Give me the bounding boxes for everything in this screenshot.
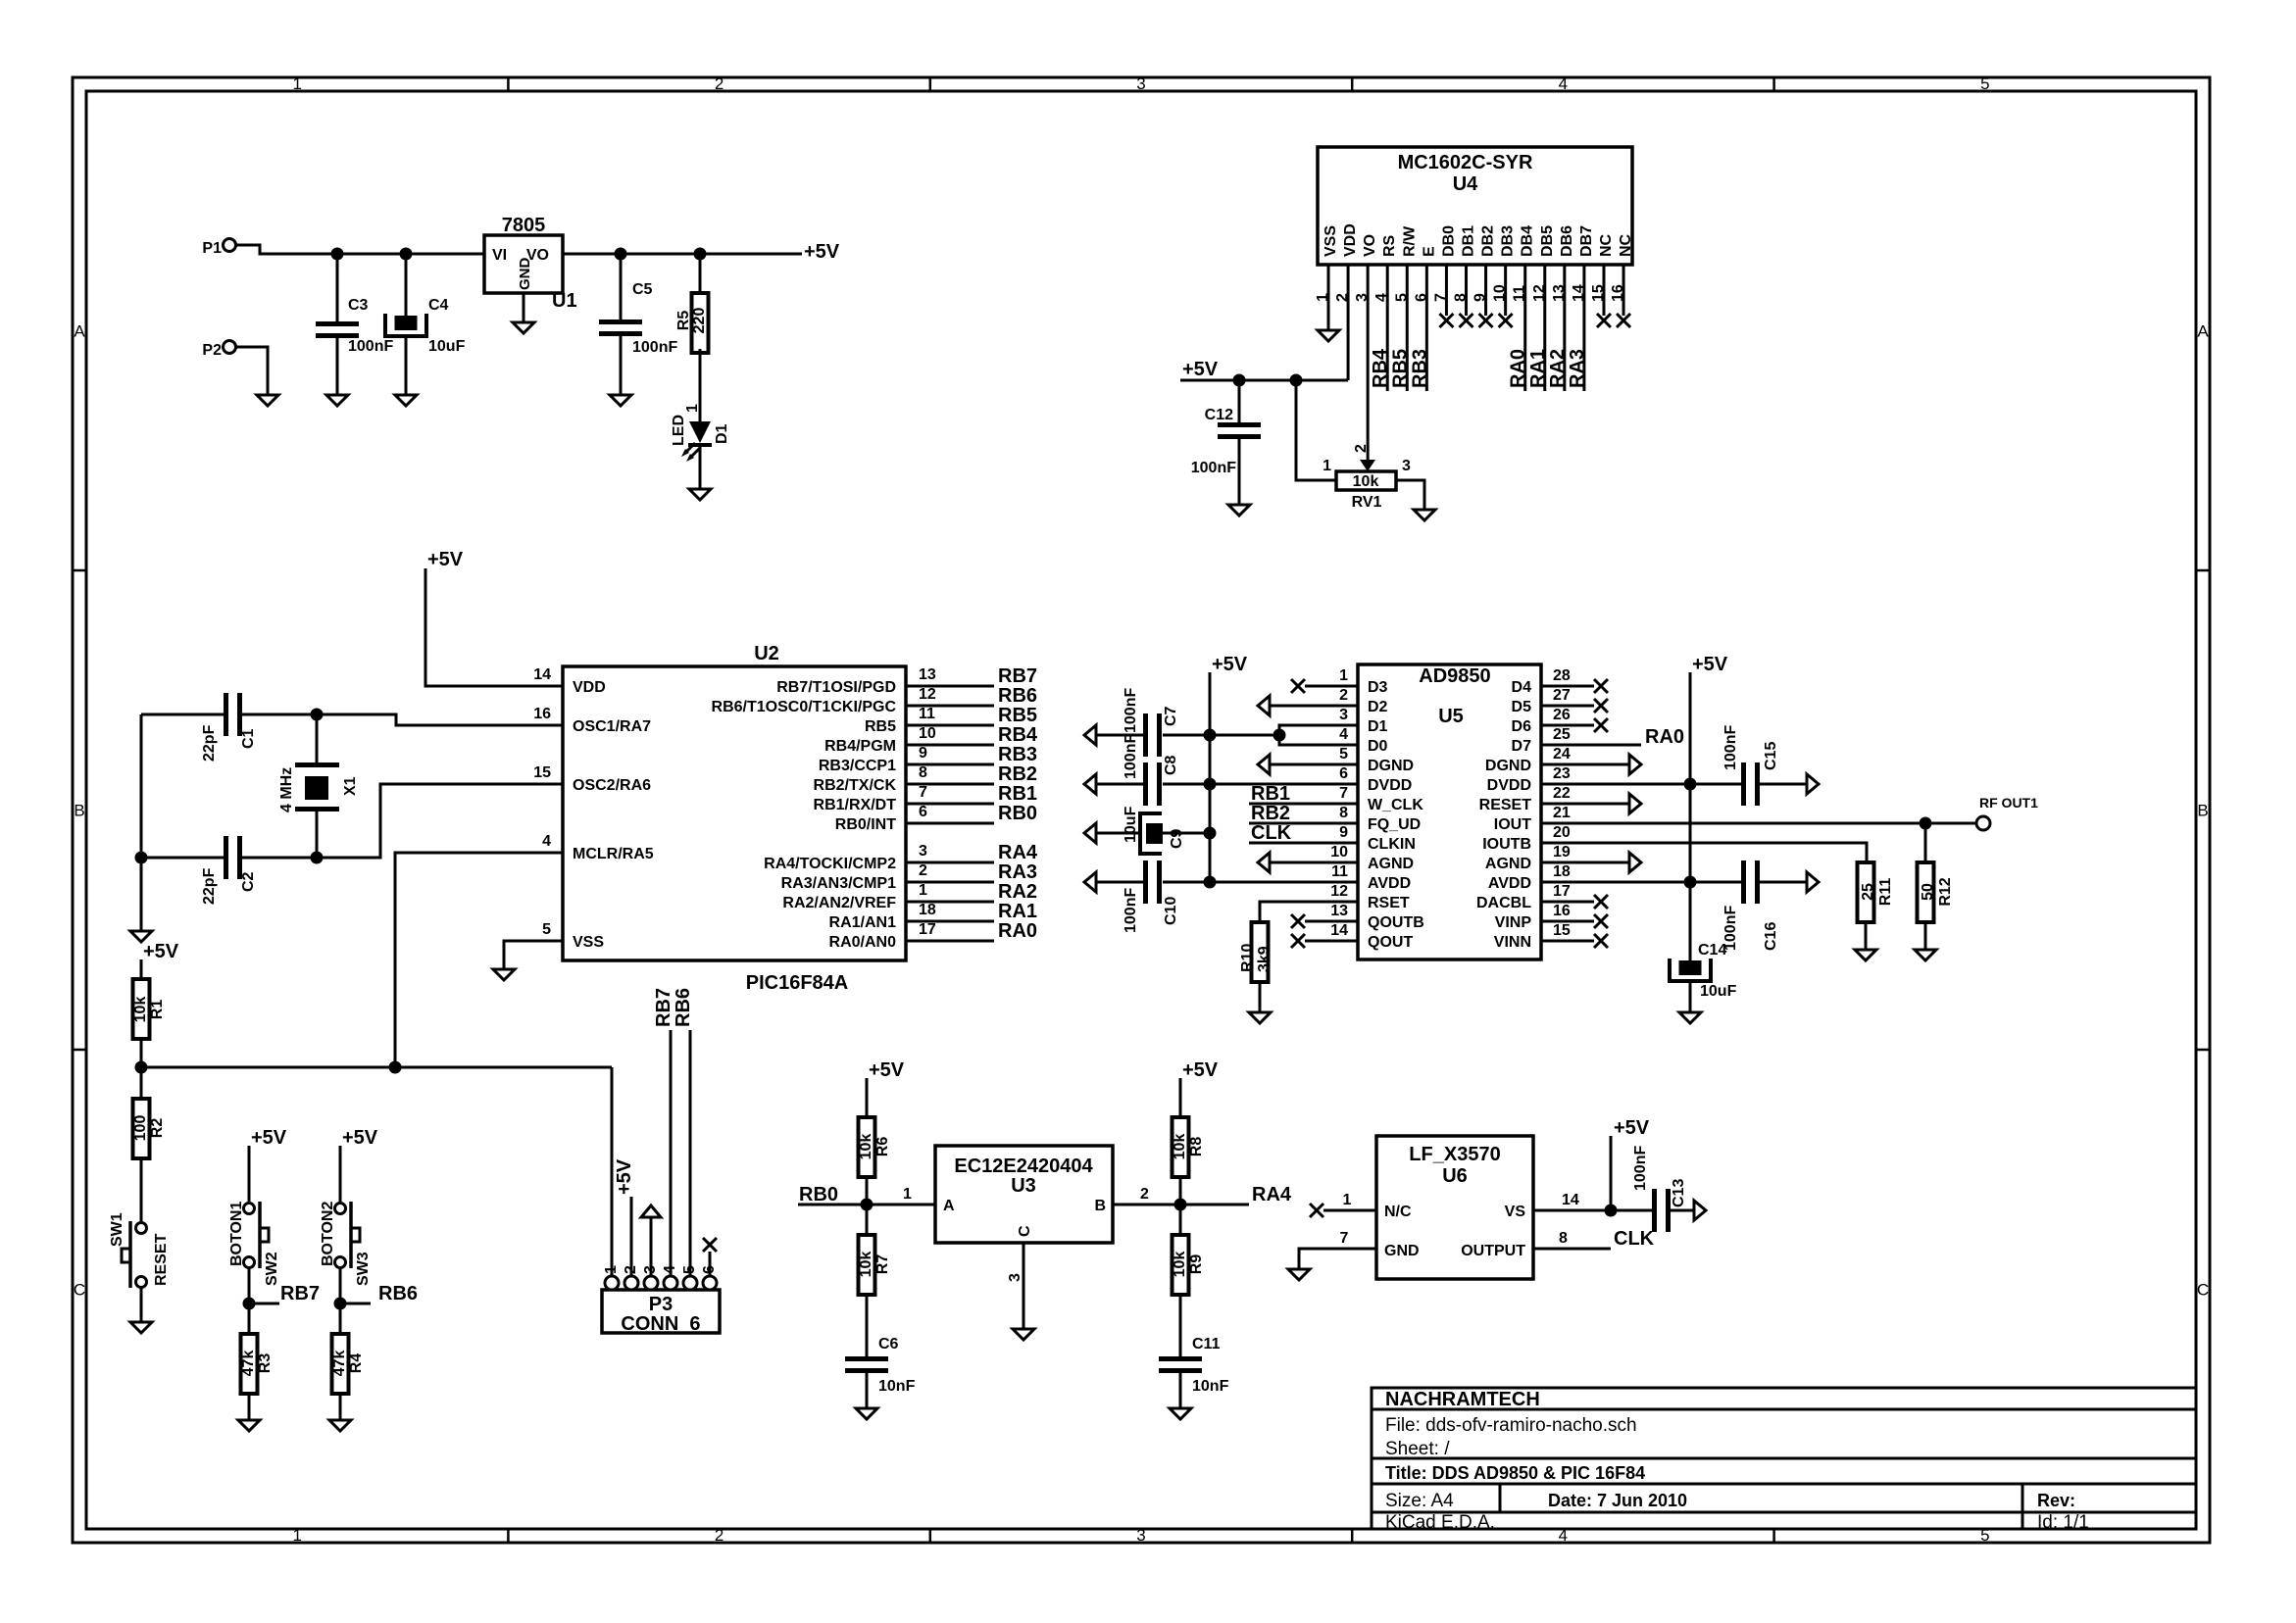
svg-text:1: 1 xyxy=(292,74,301,93)
resistor R2 100 xyxy=(140,1067,143,1099)
svg-text:RA4/TOCKI/CMP2: RA4/TOCKI/CMP2 xyxy=(764,856,896,872)
svg-text:R7: R7 xyxy=(874,1254,891,1275)
wire R9 to C11 xyxy=(1179,1295,1182,1356)
svg-text:23: 23 xyxy=(1553,765,1571,782)
svg-text:W_CLK: W_CLK xyxy=(1368,797,1423,813)
open arrow C13 xyxy=(1694,1201,1706,1220)
svg-text:C2: C2 xyxy=(240,871,257,892)
svg-text:CONN_6: CONN_6 xyxy=(621,1313,700,1335)
capacitor C7 100nF xyxy=(1143,713,1148,757)
svg-text:RA2: RA2 xyxy=(998,881,1037,903)
svg-text:RA0/AN0: RA0/AN0 xyxy=(829,934,897,951)
svg-text:220: 220 xyxy=(691,308,708,334)
svg-text:U4: U4 xyxy=(1453,173,1478,195)
svg-text:P3: P3 xyxy=(649,1294,673,1315)
resistor R10 3k9 xyxy=(1252,922,1269,982)
svg-text:2: 2 xyxy=(919,862,927,879)
svg-text:B: B xyxy=(74,802,84,820)
wire U5 pin23 DVDD to C15 xyxy=(1541,783,1741,786)
svg-text:D5: D5 xyxy=(1512,699,1532,715)
svg-text:1: 1 xyxy=(1339,667,1348,684)
svg-text:8: 8 xyxy=(1559,1230,1568,1247)
junction +5V C8 xyxy=(1204,778,1217,791)
svg-text:7: 7 xyxy=(919,784,927,801)
svg-text:RB0: RB0 xyxy=(998,803,1037,824)
no-connect U6 pin1 xyxy=(1310,1204,1323,1217)
svg-text:13: 13 xyxy=(919,666,936,683)
wire RB6 net to P3 pin5 xyxy=(689,1030,692,1276)
svg-text:D4: D4 xyxy=(1512,679,1532,696)
svg-text:3: 3 xyxy=(1136,74,1145,93)
svg-text:50: 50 xyxy=(1920,883,1936,901)
wire U2 OSC2 to X1 bottom xyxy=(242,784,563,858)
resistor R11 25 xyxy=(1858,862,1874,922)
svg-text:R12: R12 xyxy=(1937,877,1954,906)
svg-text:AVDD: AVDD xyxy=(1488,875,1531,892)
svg-text:IOUT: IOUT xyxy=(1494,816,1531,833)
svg-text:+5V: +5V xyxy=(251,1127,287,1149)
svg-text:A: A xyxy=(74,322,85,341)
regulator U1 7805 xyxy=(484,235,563,293)
svg-text:R/W: R/W xyxy=(1401,225,1418,257)
U4 pin 10 wire xyxy=(1504,265,1507,316)
junction MCLR riser xyxy=(389,1061,402,1074)
svg-text:OSC2/RA6: OSC2/RA6 xyxy=(573,777,651,794)
wire U5 pin 16 xyxy=(1541,920,1594,923)
wire U5 pin13 xyxy=(1305,920,1358,923)
wire C7 left xyxy=(1096,734,1143,737)
svg-text:VSS: VSS xyxy=(1323,225,1339,257)
wire U6 OUTPUT to CLK xyxy=(1533,1248,1611,1251)
wire +5V rail to U4 VDD xyxy=(1180,379,1348,382)
wire U5 pin22 RESET xyxy=(1541,803,1629,806)
svg-text:5: 5 xyxy=(1339,746,1348,762)
wire U5 pin18 AVDD to C16 xyxy=(1541,881,1741,884)
wire R6 to junction xyxy=(866,1177,869,1205)
junction RA4 xyxy=(1174,1199,1187,1211)
no-connect U4 pin 16 xyxy=(1617,314,1630,327)
wire C2 rail xyxy=(141,857,224,860)
svg-text:3k9: 3k9 xyxy=(1256,946,1273,972)
svg-text:10uF: 10uF xyxy=(1123,806,1139,843)
svg-text:RESET: RESET xyxy=(1479,797,1532,813)
svg-text:SW3: SW3 xyxy=(355,1252,372,1286)
svg-text:14: 14 xyxy=(1330,922,1348,939)
svg-text:VDD: VDD xyxy=(1342,223,1359,257)
svg-text:DB5: DB5 xyxy=(1539,225,1556,257)
svg-text:X1: X1 xyxy=(342,776,359,796)
svg-text:OSC1/RA7: OSC1/RA7 xyxy=(573,718,651,735)
svg-text:D0: D0 xyxy=(1368,738,1388,755)
svg-text:DB0: DB0 xyxy=(1440,225,1457,257)
svg-text:R3: R3 xyxy=(257,1353,274,1374)
DDS U5 AD9850 xyxy=(1358,664,1541,959)
wire U6 GND to ground xyxy=(1299,1249,1376,1269)
svg-text:2: 2 xyxy=(1339,687,1348,704)
svg-text:1: 1 xyxy=(1323,458,1331,474)
wire C8 left xyxy=(1096,783,1143,786)
wire SW3 to junction xyxy=(339,1267,342,1303)
svg-text:27: 27 xyxy=(1553,687,1571,704)
capacitor C10 100nF xyxy=(1143,861,1148,904)
svg-text:DB7: DB7 xyxy=(1578,225,1595,257)
junction X1 bottom xyxy=(311,852,324,864)
svg-text:VS: VS xyxy=(1505,1204,1526,1220)
svg-text:18: 18 xyxy=(1553,863,1571,880)
svg-text:25: 25 xyxy=(1553,726,1571,743)
open arrow U5 pin22 xyxy=(1629,794,1641,813)
ground C3 xyxy=(326,395,348,406)
svg-text:C10: C10 xyxy=(1163,897,1179,925)
wire RB6 stub xyxy=(340,1303,371,1305)
wire RB7 net to P3 pin4 xyxy=(670,1030,673,1276)
wire U3 C to ground xyxy=(1023,1243,1025,1329)
svg-text:DACBL: DACBL xyxy=(1476,895,1531,911)
wire left rail down xyxy=(140,714,143,931)
no-connect U4 pin 15 xyxy=(1597,314,1611,327)
svg-text:RB2: RB2 xyxy=(998,763,1037,785)
no-connect U5 pin 15 xyxy=(1594,934,1608,948)
wire C9 rail to +5V xyxy=(1163,832,1210,835)
svg-text:U5: U5 xyxy=(1438,706,1464,727)
svg-text:RB6: RB6 xyxy=(378,1283,418,1304)
U4 pin 14 wire xyxy=(1582,265,1585,391)
title block xyxy=(1372,1388,2196,1529)
svg-text:RB5: RB5 xyxy=(998,705,1037,726)
svg-text:26: 26 xyxy=(1553,707,1571,723)
svg-text:RV1: RV1 xyxy=(1352,494,1382,511)
svg-text:N/C: N/C xyxy=(1384,1204,1412,1220)
wire C10 left xyxy=(1096,881,1143,884)
U4 pin 5 wire xyxy=(1406,265,1409,391)
wire 7805 VO to +5V xyxy=(563,253,802,256)
wire junction to U3 A xyxy=(867,1204,935,1206)
no-connect U5 pin 16 xyxy=(1594,914,1608,928)
svg-text:RB3: RB3 xyxy=(998,744,1037,765)
svg-text:24: 24 xyxy=(1553,746,1571,762)
svg-text:C9: C9 xyxy=(1169,828,1185,849)
svg-text:CLK: CLK xyxy=(1251,822,1292,844)
svg-text:R4: R4 xyxy=(348,1353,365,1374)
svg-text:9: 9 xyxy=(1339,824,1348,841)
capacitor C15 100nF xyxy=(1741,762,1746,806)
junction R12 xyxy=(1920,817,1932,830)
wire +5V rail to 7805 VI xyxy=(337,253,484,256)
ground C14 xyxy=(1679,1012,1701,1023)
wire U5 pin10 AGND xyxy=(1270,861,1358,864)
svg-text:RB4: RB4 xyxy=(1370,348,1391,388)
ground RV1 xyxy=(1414,510,1435,520)
svg-text:3: 3 xyxy=(1136,1526,1145,1545)
svg-text:2: 2 xyxy=(715,74,724,93)
svg-text:NC: NC xyxy=(1618,233,1634,257)
open arrow U5 pin19 xyxy=(1629,853,1641,872)
svg-text:5: 5 xyxy=(542,921,551,938)
ground R10 xyxy=(1249,1012,1271,1023)
svg-text:BOTON2: BOTON2 xyxy=(320,1202,336,1266)
svg-text:AGND: AGND xyxy=(1485,856,1531,872)
wire RV1 pin1 xyxy=(1296,380,1336,480)
wire RV1 pin3 to ground xyxy=(1396,480,1424,510)
wire U5 pin20 IOUTB to R11 xyxy=(1541,843,1867,862)
svg-text:C5: C5 xyxy=(632,281,653,298)
svg-text:DB3: DB3 xyxy=(1500,225,1517,257)
svg-text:RB0/INT: RB0/INT xyxy=(835,816,896,833)
svg-text:15: 15 xyxy=(533,764,551,781)
wire +5V to U2 VDD pin 14 xyxy=(425,568,563,686)
resistor R6 10k xyxy=(859,1117,875,1177)
svg-text:E: E xyxy=(1421,246,1437,257)
svg-text:EC12E2420404: EC12E2420404 xyxy=(954,1156,1093,1177)
junction R5 xyxy=(694,248,707,261)
svg-text:1: 1 xyxy=(292,1526,301,1545)
svg-text:RA2/AN2/VREF: RA2/AN2/VREF xyxy=(782,895,896,911)
ground U6 xyxy=(1288,1269,1310,1280)
svg-text:SW1: SW1 xyxy=(109,1212,125,1247)
no-connect U5 pin13 xyxy=(1291,914,1305,928)
svg-text:2: 2 xyxy=(1140,1186,1149,1203)
wire U5 pin12 RSET to R10 xyxy=(1260,902,1358,922)
svg-text:+5V: +5V xyxy=(614,1158,635,1195)
wire U5 pin14 xyxy=(1305,940,1358,943)
svg-text:6: 6 xyxy=(1339,765,1348,782)
no-connect U4 pin 7 xyxy=(1439,314,1453,327)
ground SW1 xyxy=(130,1322,152,1333)
svg-text:RSET: RSET xyxy=(1368,895,1410,911)
ground C11 xyxy=(1170,1408,1191,1419)
resistor R1 10k xyxy=(133,979,150,1039)
svg-text:GND: GND xyxy=(1384,1243,1420,1259)
svg-text:C: C xyxy=(74,1281,85,1300)
svg-text:3: 3 xyxy=(919,843,927,860)
wire U5 pin 26 xyxy=(1541,724,1594,727)
junction C3 xyxy=(331,248,344,261)
open arrow C15 xyxy=(1807,774,1819,794)
svg-text:100nF: 100nF xyxy=(1123,734,1139,779)
svg-text:C13: C13 xyxy=(1671,1179,1687,1207)
ground U3 C xyxy=(1013,1329,1034,1340)
svg-text:DB6: DB6 xyxy=(1559,225,1575,257)
wire U1 GND xyxy=(523,293,525,322)
ground R3 xyxy=(238,1420,260,1431)
svg-text:AVDD: AVDD xyxy=(1368,875,1411,892)
wire U5 pin9 CLKIN xyxy=(1249,842,1358,845)
svg-text:BOTON1: BOTON1 xyxy=(228,1202,245,1266)
wire U5 pin1 xyxy=(1305,685,1358,688)
no-connect U5 pin 17 xyxy=(1594,895,1608,909)
no-connect U5 pin1 D3 xyxy=(1291,679,1305,693)
svg-text:25: 25 xyxy=(1860,883,1876,901)
junction +5V C7 xyxy=(1204,729,1217,742)
svg-text:100nF: 100nF xyxy=(1123,688,1139,733)
push button SW3 BOTON2 xyxy=(335,1204,346,1214)
svg-text:RF OUT1: RF OUT1 xyxy=(1979,795,2038,811)
resistor R3 47k xyxy=(248,1303,251,1334)
wire U5 pin 27 xyxy=(1541,705,1594,708)
svg-text:RB6: RB6 xyxy=(673,988,694,1027)
svg-text:R2: R2 xyxy=(149,1118,166,1139)
svg-text:NC: NC xyxy=(1598,233,1615,257)
wire U5 pin2 xyxy=(1270,705,1358,708)
svg-text:Id: 1/1: Id: 1/1 xyxy=(2037,1512,2089,1533)
svg-text:R5: R5 xyxy=(675,311,692,331)
svg-text:15: 15 xyxy=(1553,922,1571,939)
svg-text:18: 18 xyxy=(919,902,936,918)
svg-text:7: 7 xyxy=(1339,785,1348,802)
svg-text:LED: LED xyxy=(671,415,687,446)
resistor R5 220 xyxy=(699,254,702,293)
svg-text:B: B xyxy=(1094,1198,1106,1214)
svg-text:RB7: RB7 xyxy=(653,988,674,1027)
wire P2 to ground xyxy=(236,347,268,395)
push button SW1 xyxy=(136,1223,147,1234)
svg-text:RB6: RB6 xyxy=(998,685,1037,707)
svg-text:12: 12 xyxy=(1330,883,1348,900)
U4 pin 4 wire xyxy=(1386,265,1389,391)
svg-text:+5V: +5V xyxy=(804,241,840,263)
wire R5 to D1 xyxy=(699,349,702,421)
svg-text:100nF: 100nF xyxy=(1632,1146,1649,1191)
wire R12 to ground xyxy=(1924,922,1927,950)
svg-text:3: 3 xyxy=(1402,458,1411,474)
U4 pin 15 wire xyxy=(1602,265,1605,316)
svg-text:10k: 10k xyxy=(1172,1252,1188,1278)
svg-text:RESET: RESET xyxy=(153,1233,170,1286)
svg-text:QOUTB: QOUTB xyxy=(1368,914,1424,931)
U4 pin 1 wire (VSS) xyxy=(1327,265,1330,330)
capacitor C9 10uF polarized xyxy=(1140,813,1162,854)
svg-text:47k: 47k xyxy=(240,1351,257,1377)
svg-text:Rev:: Rev: xyxy=(2037,1491,2075,1510)
svg-text:RB6/T1OSC0/T1CKI/PGC: RB6/T1OSC0/T1CKI/PGC xyxy=(712,699,897,715)
wire RA4 stub xyxy=(1180,1204,1249,1206)
capacitor C8 100nF xyxy=(1143,762,1148,806)
oscillator U6 LF_X3570 xyxy=(1376,1136,1533,1279)
wire C1 rail xyxy=(141,713,224,716)
svg-text:8: 8 xyxy=(1339,805,1348,821)
svg-text:+5V: +5V xyxy=(143,941,179,962)
ground C4 xyxy=(395,395,417,406)
svg-text:+5V: +5V xyxy=(1182,1059,1219,1081)
wire U5 pin7 W_CLK xyxy=(1249,803,1358,806)
svg-text:C12: C12 xyxy=(1205,407,1233,423)
svg-text:RB0: RB0 xyxy=(799,1184,838,1205)
wire U5 pin 28 xyxy=(1541,685,1594,688)
capacitor C6 10nF xyxy=(845,1356,888,1361)
ground R4 xyxy=(329,1420,351,1431)
wire D1 to ground xyxy=(699,445,702,489)
svg-text:RB5: RB5 xyxy=(865,718,896,735)
svg-text:Title: DDS AD9850 & PIC 16F84: Title: DDS AD9850 & PIC 16F84 xyxy=(1385,1463,1645,1483)
svg-text:RB1: RB1 xyxy=(998,783,1037,805)
svg-text:10nF: 10nF xyxy=(1192,1378,1229,1395)
crystal X1 4MHz xyxy=(316,714,319,764)
svg-text:RA0: RA0 xyxy=(1508,349,1529,388)
svg-text:OUTPUT: OUTPUT xyxy=(1461,1243,1525,1259)
svg-text:LF_X3570: LF_X3570 xyxy=(1409,1144,1500,1165)
svg-text:RA3: RA3 xyxy=(1567,349,1588,388)
svg-text:U2: U2 xyxy=(754,643,779,664)
wire C13 to arrow xyxy=(1671,1209,1694,1212)
wire U6 VS to C13 xyxy=(1533,1209,1652,1212)
svg-text:1: 1 xyxy=(603,1265,620,1274)
svg-text:14: 14 xyxy=(1562,1192,1579,1208)
svg-text:U1: U1 xyxy=(552,290,577,312)
ground C12 xyxy=(1228,505,1250,516)
svg-text:Sheet: /: Sheet: / xyxy=(1385,1439,1450,1459)
connector P2 xyxy=(224,341,236,354)
no-connect U4 pin 9 xyxy=(1479,314,1493,327)
U4 pin 16 wire xyxy=(1622,265,1625,316)
wire SW2 to junction xyxy=(248,1267,251,1303)
svg-text:RS: RS xyxy=(1381,234,1398,257)
svg-text:RB5: RB5 xyxy=(1389,349,1411,388)
svg-text:DB1: DB1 xyxy=(1460,225,1476,257)
svg-text:47k: 47k xyxy=(331,1351,348,1377)
svg-text:+5V: +5V xyxy=(1212,654,1248,675)
capacitor C3 xyxy=(336,254,339,321)
svg-text:RA2: RA2 xyxy=(1547,349,1569,388)
svg-text:2: 2 xyxy=(1353,444,1370,453)
svg-text:C: C xyxy=(1017,1225,1033,1237)
svg-text:+5V: +5V xyxy=(342,1127,378,1149)
ground left rail xyxy=(130,931,152,942)
svg-text:100nF: 100nF xyxy=(1123,888,1139,933)
capacitor C5 xyxy=(620,254,623,320)
svg-text:10uF: 10uF xyxy=(428,338,466,355)
svg-text:D6: D6 xyxy=(1512,718,1532,735)
junction +5V C15 xyxy=(1684,778,1697,791)
open arrow C8 xyxy=(1084,774,1096,794)
U4 pin 7 wire xyxy=(1445,265,1448,316)
ground U2 VSS xyxy=(493,969,515,980)
svg-text:CLKIN: CLKIN xyxy=(1368,836,1416,853)
svg-text:RB1: RB1 xyxy=(1251,783,1290,805)
U4 pin 8 wire xyxy=(1465,265,1468,316)
wire RB7 stub xyxy=(249,1303,279,1305)
no-connect U4 pin 10 xyxy=(1499,314,1513,327)
svg-text:D3: D3 xyxy=(1368,679,1388,696)
svg-text:100: 100 xyxy=(132,1115,149,1142)
U4 pin 12 wire xyxy=(1543,265,1546,391)
junction C12 xyxy=(1233,374,1246,387)
svg-text:D7: D7 xyxy=(1512,738,1532,755)
svg-text:19: 19 xyxy=(1553,844,1571,861)
svg-text:P2: P2 xyxy=(202,342,222,359)
svg-text:KiCad E.D.A.: KiCad E.D.A. xyxy=(1385,1512,1495,1533)
wire R2 to SW1 xyxy=(140,1157,143,1222)
wire U5 pin21 IOUT to RF OUT xyxy=(1541,822,1976,825)
svg-text:21: 21 xyxy=(1553,805,1571,821)
capacitor C14 10uF polarized xyxy=(1670,959,1711,981)
open arrow C9 xyxy=(1084,823,1096,843)
open arrow C16 xyxy=(1807,872,1819,892)
open arrow U5 pin10 xyxy=(1258,853,1270,872)
capacitor C16 100nF xyxy=(1741,861,1746,904)
svg-text:A: A xyxy=(2197,322,2209,341)
svg-text:C15: C15 xyxy=(1763,742,1779,770)
svg-text:CLK: CLK xyxy=(1614,1228,1655,1250)
wire R10 to ground xyxy=(1259,982,1262,1012)
wire U6 pin1 xyxy=(1323,1209,1376,1212)
svg-text:RB4: RB4 xyxy=(998,724,1038,746)
svg-text:R11: R11 xyxy=(1877,878,1894,907)
svg-text:FQ_UD: FQ_UD xyxy=(1368,816,1421,833)
ground U4 VSS xyxy=(1318,330,1339,341)
svg-text:7805: 7805 xyxy=(502,215,546,236)
junction RB0 xyxy=(861,1199,873,1211)
junction +5V C10 xyxy=(1204,876,1217,889)
